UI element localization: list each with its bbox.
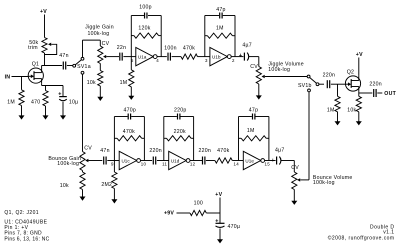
wire U1a 1M to ground: [130, 87, 132, 96]
label 47p U1b: [216, 7, 225, 13]
svg-text:Q1: Q1: [32, 61, 39, 67]
wire node to 470u: [219, 213, 221, 223]
wire U1a out: [157, 56, 167, 58]
label SV1a: [77, 64, 91, 70]
svg-text:+: +: [215, 218, 218, 224]
wire U1d res lead right: [191, 137, 194, 139]
label 100n: [164, 45, 177, 51]
resistor 1M (Q2 gate): [335, 96, 340, 112]
capacitor 220n (bounce mid): [153, 157, 155, 165]
wire R100 to node: [206, 212, 220, 214]
resistor 2M2: [112, 172, 117, 189]
capacitor 47p (U1b feedback): [220, 13, 222, 19]
wire U1e res lead right: [266, 137, 269, 139]
wire pot to 10k bounce: [82, 171, 84, 173]
wire 1M Q2 to ground: [337, 112, 339, 122]
capacitor 100n: [168, 53, 170, 61]
wire BV pot to ground: [293, 190, 295, 202]
wire U1c 2M2 down: [113, 161, 115, 173]
trimmer 50k: [42, 38, 47, 54]
wire +V to Q2 drain: [358, 58, 360, 76]
svg-text:CV: CV: [102, 41, 110, 47]
wire U1a feedback top right: [148, 15, 161, 17]
wire U1b feedback left: [204, 16, 206, 57]
svg-text:12: 12: [190, 162, 196, 167]
capacitor 100p (U1a feedback): [145, 13, 147, 19]
capacitor 22n: [120, 53, 122, 61]
svg-text:Q1, Q2: J201: Q1, Q2: J201: [4, 210, 39, 216]
ground (U1a 1M): [128, 96, 134, 100]
wire U1d feedback left: [163, 117, 165, 161]
svg-text:U1b: U1b: [212, 54, 221, 59]
wire C47n to SV1a: [67, 65, 73, 67]
label 120k: [138, 26, 150, 32]
wire pot to 10k: [99, 64, 101, 71]
svg-text:Q2: Q2: [347, 70, 354, 76]
bounce gain wiper: [85, 159, 102, 162]
ground (Q2 10k): [356, 121, 362, 125]
label 1M U1e: [247, 128, 255, 134]
wire 470k to U1e: [232, 160, 243, 162]
switch SV1b throw top: [307, 75, 310, 78]
label 220n Q2: [323, 73, 336, 79]
wire U1e res lead left: [239, 137, 242, 139]
svg-text:220k: 220k: [174, 129, 186, 135]
label 470: [31, 99, 40, 105]
wire to R470: [45, 86, 47, 91]
wire 47n to U1c: [107, 160, 119, 162]
svg-text:220n: 220n: [149, 148, 162, 154]
capacitor 470p (U1c feedback): [128, 114, 130, 120]
label 10u: [69, 99, 79, 105]
wire corner down to JV pot: [258, 57, 260, 67]
wire U1e feedback right: [268, 117, 270, 161]
svg-text:Jiggle Gain: Jiggle Gain: [85, 25, 114, 31]
wire U1e feedback top right: [256, 116, 269, 118]
wire SV1b bottom vertical: [308, 92, 310, 180]
svg-text:9: 9: [111, 162, 114, 167]
potentiometer Jiggle Volume 100k: [256, 67, 261, 85]
wire U1c res lead right: [142, 137, 145, 139]
pin 2 U1b: [232, 58, 235, 63]
label CV jiggle volume: [250, 64, 258, 70]
wire U1b feedback top left: [205, 15, 219, 17]
resistor 470k (jiggle): [181, 54, 198, 59]
pin 3 U1b: [205, 58, 208, 63]
capacitor 220n (U1d to 470k): [203, 157, 205, 165]
svg-text:+9V: +9V: [164, 211, 174, 217]
wire +9V to R100: [177, 212, 191, 214]
wire node up to +V: [219, 198, 221, 214]
svg-text:U1d: U1d: [171, 158, 180, 163]
svg-text:+: +: [271, 158, 274, 164]
label Q1: [32, 61, 39, 67]
label 4u7 jiggle: [242, 43, 252, 49]
ground (470): [43, 115, 49, 119]
wire U1c feedback top left: [114, 116, 127, 118]
node IN label: [5, 75, 11, 81]
svg-text:100k-log: 100k-log: [313, 180, 335, 186]
wire 1M to ground: [21, 106, 23, 117]
wire 470k to U1b: [198, 56, 210, 58]
label trim: [28, 45, 38, 51]
svg-text:U1a: U1a: [138, 54, 147, 59]
label 100k-log jiggle gain: [87, 31, 109, 37]
svg-text:+: +: [239, 53, 242, 59]
svg-text:2M2: 2M2: [101, 182, 112, 188]
capacitor 470u electrolytic: [215, 218, 224, 227]
ground (bounce volume): [291, 201, 297, 205]
pin 12 U1d: [190, 162, 196, 167]
power +V (trimmer): [40, 9, 47, 15]
wire U1c feedback left: [113, 117, 115, 161]
svg-text:CV: CV: [250, 64, 258, 70]
label 470k jiggle: [183, 46, 195, 52]
svg-text:1M: 1M: [7, 99, 15, 105]
resistor 1M (U1a input): [129, 70, 134, 87]
switch SV1b pole: [316, 83, 319, 86]
label CV bounce volume: [291, 165, 299, 171]
wire +V to trimmer: [44, 15, 46, 38]
label SV1b: [298, 83, 312, 89]
switch SV1a throw top: [81, 57, 84, 60]
svg-text:OUT: OUT: [384, 91, 396, 97]
credit Double D: [370, 225, 394, 231]
note U1 CD4049UBE: [4, 220, 47, 226]
svg-text:+V: +V: [215, 192, 222, 198]
svg-text:Pins 6, 13, 16: NC: Pins 6, 13, 16: NC: [4, 236, 49, 242]
svg-text:10k: 10k: [347, 107, 356, 113]
potentiometer Bounce Volume 100k: [292, 172, 297, 190]
svg-text:+V: +V: [40, 9, 47, 15]
svg-text:4µ7: 4µ7: [242, 43, 252, 49]
switch SV1b throw bottom: [308, 89, 311, 92]
svg-text:47n: 47n: [100, 148, 109, 154]
inverter U1a: [136, 47, 157, 65]
transistor Q1 J201: [28, 68, 43, 83]
label Jiggle Volume: [268, 62, 304, 68]
credit v1.1: [383, 230, 394, 236]
svg-text:470p: 470p: [124, 108, 137, 114]
note pins61316: [4, 236, 49, 242]
ground (input 1M): [19, 115, 25, 119]
wire U1b res lead left: [205, 35, 208, 37]
label 470p: [124, 108, 137, 114]
pin 14 U1e: [234, 162, 240, 167]
svg-text:220n: 220n: [369, 82, 382, 88]
svg-text:100k-log: 100k-log: [87, 31, 109, 37]
wire IN to Q1 gate: [12, 76, 29, 78]
label 47p U1e: [249, 108, 258, 114]
resistor 470: [43, 91, 48, 107]
label +9V: [164, 211, 174, 217]
svg-text:©2008, runoffgroove.com: ©2008, runoffgroove.com: [328, 235, 395, 242]
inverter U1b: [210, 47, 231, 65]
wire node to R1M out: [337, 84, 339, 96]
label Jiggle Gain: [85, 25, 114, 31]
label OUT: [384, 91, 396, 97]
label 47n jiggle: [59, 53, 68, 59]
wire 22n to U1a: [123, 56, 135, 58]
wire source node: [42, 85, 63, 87]
wire 10u to ground: [62, 102, 64, 116]
inverter U1c: [119, 151, 140, 169]
ground (10u): [60, 115, 66, 119]
inverter U1d: [169, 151, 190, 169]
svg-text:220n: 220n: [323, 73, 336, 79]
label 50k: [29, 40, 38, 46]
wire U1a feedback left: [130, 16, 132, 57]
label 220k: [174, 129, 186, 135]
wire node to R 1M input: [21, 77, 23, 90]
label 1M Q2: [327, 107, 335, 113]
wire source to out: [359, 92, 373, 94]
label 220n out: [369, 82, 382, 88]
inverter U1e: [243, 151, 264, 169]
label 470u: [228, 224, 241, 230]
wire SV1a bottom to bounce pot: [82, 74, 84, 151]
wire U1b feedback right: [234, 16, 236, 57]
resistor 470k (bounce): [215, 158, 232, 163]
svg-text:14: 14: [234, 162, 240, 167]
svg-text:470k: 470k: [123, 129, 135, 135]
label 100p: [139, 5, 152, 11]
svg-text:470k: 470k: [217, 148, 229, 154]
power +V (supply): [215, 192, 222, 198]
wire JV pot to ground: [258, 84, 260, 96]
note pin1: [4, 225, 28, 231]
wire U1a res lead left: [131, 35, 134, 37]
svg-text:47n: 47n: [59, 53, 68, 59]
wire U1d res lead left: [164, 137, 167, 139]
note pins78: [4, 231, 42, 237]
wire U1c res lead left: [114, 137, 117, 139]
svg-text:100: 100: [194, 201, 203, 207]
label 100k-log jiggle volume: [268, 67, 290, 73]
power +V (Q2): [356, 52, 363, 58]
wire 10k to ground: [99, 86, 101, 97]
label 1M U1b: [216, 25, 224, 31]
wire U1c out: [141, 160, 153, 162]
wire U1d feedback right: [193, 117, 195, 161]
wire U1a res lead right: [159, 35, 162, 37]
wire SV1a top to rail: [82, 40, 84, 57]
wire trimmer to drain node: [44, 53, 46, 66]
svg-text:1M: 1M: [247, 128, 255, 134]
wire U1b out: [231, 56, 243, 58]
label 47n bounce: [100, 148, 109, 154]
label 1M input: [7, 99, 15, 105]
svg-text:15: 15: [265, 162, 271, 167]
switch SV1a pole: [73, 64, 76, 67]
wire U1a feedback top left: [131, 15, 144, 17]
svg-text:120k: 120k: [138, 26, 150, 32]
resistor 10k (bounce gain): [80, 172, 85, 190]
wire 470 to ground: [45, 106, 47, 116]
potentiometer Jiggle Gain 100k: [98, 46, 103, 64]
svg-text:IN: IN: [5, 75, 11, 81]
label CV jiggle gain: [102, 41, 110, 47]
resistor 1M (input): [19, 90, 24, 106]
label 10k bounce: [60, 183, 69, 189]
label 10k Q2: [347, 107, 356, 113]
label 2M2: [101, 182, 112, 188]
svg-text:CV: CV: [291, 165, 299, 171]
svg-text:10µ: 10µ: [69, 99, 79, 105]
wire 220n to 470k bounce: [206, 160, 215, 162]
svg-text:11: 11: [162, 162, 167, 167]
resistor 10k (Q2 source): [356, 96, 361, 112]
switch SV1b lever: [310, 78, 317, 84]
capacitor 220p (U1d feedback): [178, 114, 180, 120]
wire 4u7 to corner: [249, 56, 259, 58]
svg-text:47p: 47p: [249, 108, 258, 114]
wire drain node to C47n: [42, 65, 63, 67]
svg-text:SV1b: SV1b: [298, 83, 312, 89]
switch SV1a lever: [75, 60, 81, 65]
resistor 120k (U1a feedback): [134, 33, 159, 38]
svg-text:100k-log: 100k-log: [57, 161, 79, 167]
label 470k bounce: [217, 148, 229, 154]
label Bounce Volume: [313, 175, 353, 181]
svg-text:470µ: 470µ: [228, 224, 241, 230]
bounce volume wiper: [297, 178, 309, 181]
wire Q2 source down: [358, 91, 360, 93]
wire U1e feedback top left: [239, 116, 252, 118]
wire to C 10u: [62, 86, 64, 97]
label Bounce Gain: [48, 156, 81, 162]
svg-text:3: 3: [205, 58, 208, 63]
label 10k jiggle: [87, 80, 96, 86]
capacitor 4u7 (bounce out): [271, 157, 281, 165]
resistor 1M (U1e feedback): [241, 136, 266, 141]
capacitor 4u7 (jiggle out): [239, 53, 249, 61]
label 220p: [174, 108, 187, 114]
svg-text:1M: 1M: [120, 80, 128, 86]
wire 220n to OUT: [377, 92, 382, 94]
svg-text:2: 2: [232, 58, 235, 63]
label 100k-log bounce volume: [313, 180, 335, 186]
resistor 220k (U1d feedback): [167, 136, 192, 141]
ground (bounce 10k): [80, 197, 86, 201]
svg-text:47p: 47p: [216, 7, 225, 13]
wire rail to jiggle gain pot: [83, 39, 101, 41]
wire Q1 drain to node: [41, 66, 43, 69]
wire U1c feedback top right: [131, 116, 144, 118]
credit copyright: [328, 235, 395, 242]
wire to pot top: [99, 40, 101, 46]
wire 4u7 to corner bounce: [281, 160, 295, 162]
resistor 100: [190, 210, 206, 215]
svg-text:4µ7: 4µ7: [275, 147, 285, 153]
label Q2: [347, 70, 354, 76]
wire U1e feedback left: [238, 117, 240, 161]
svg-text:100n: 100n: [164, 45, 177, 51]
wire Q1 source down: [41, 83, 43, 85]
svg-text:CV: CV: [84, 145, 92, 151]
trimmer wiper: [45, 43, 57, 55]
resistor 1M (U1b feedback): [207, 33, 232, 38]
wire U1d feedback top right: [181, 116, 194, 118]
svg-text:4: 4: [156, 58, 159, 63]
wire 220n to Q2 gate: [331, 83, 346, 85]
svg-text:1M: 1M: [327, 107, 335, 113]
wire U1d out: [190, 160, 203, 162]
svg-text:100p: 100p: [139, 5, 152, 11]
svg-text:470: 470: [31, 99, 40, 105]
wire 220n to U1d: [157, 160, 169, 162]
pin 9 U1c: [111, 162, 114, 167]
label 1M U1a: [120, 80, 128, 86]
label 4u7 bounce: [275, 147, 285, 153]
svg-text:U1e: U1e: [245, 158, 254, 163]
label 100k-log bounce gain: [57, 161, 79, 167]
pin 15 U1e: [265, 162, 271, 167]
ground (Q2 1M): [335, 121, 341, 125]
svg-text:SV1a: SV1a: [77, 64, 91, 70]
capacitor 220n (to Q2): [327, 80, 329, 88]
wire U1a feedback right: [160, 16, 162, 57]
wire SV1b to 220n: [319, 83, 324, 85]
jiggle volume wiper: [262, 75, 308, 78]
label 100: [194, 201, 203, 207]
ground (jiggle 10k): [97, 97, 103, 101]
svg-text:+: +: [58, 91, 61, 97]
svg-text:trim: trim: [28, 45, 38, 51]
wire U1b feedback top right: [223, 15, 235, 17]
wire U1c feedback right: [143, 117, 145, 161]
capacitor 10u electrolytic: [58, 91, 67, 100]
svg-text:1M: 1M: [216, 25, 224, 31]
note Q1 Q2 J201: [4, 210, 39, 216]
label CV bounce gain: [84, 145, 92, 151]
wire to R10k out: [358, 93, 360, 96]
svg-text:+V: +V: [356, 52, 363, 58]
label 220n bounce: [149, 148, 162, 154]
capacitor 47p (U1e feedback): [253, 114, 255, 120]
svg-text:100k-log: 100k-log: [268, 67, 290, 73]
jiggle gain wiper: [103, 55, 119, 58]
capacitor 220n (output): [374, 89, 376, 97]
svg-text:10k: 10k: [60, 183, 69, 189]
wire U1a 1M down: [130, 57, 132, 70]
ground (jiggle volume): [256, 95, 262, 99]
label 220n bounce 2: [199, 148, 212, 154]
wire U1e out: [265, 160, 276, 162]
label 470k U1c: [123, 129, 135, 135]
svg-text:22n: 22n: [117, 45, 126, 51]
resistor 10k (jiggle gain): [98, 71, 103, 87]
label 22n: [117, 45, 126, 51]
wire 10k Q2 to ground: [358, 112, 360, 122]
wire 470u to ground: [219, 229, 221, 240]
wire 2M2 to ground: [113, 189, 115, 200]
wire U1d feedback top left: [164, 116, 177, 118]
potentiometer Bounce Gain 100k: [80, 152, 85, 171]
pin 5 U1a: [131, 58, 134, 63]
ground (2M2): [111, 199, 117, 203]
svg-text:10: 10: [141, 162, 147, 167]
svg-text:220p: 220p: [174, 108, 187, 114]
pin 11 U1d: [162, 162, 167, 167]
resistor 470k (U1c feedback): [117, 136, 142, 141]
capacitor 47n (jiggle input): [63, 62, 65, 70]
pin 4 U1a: [156, 58, 159, 63]
svg-text:U1c: U1c: [121, 158, 130, 163]
transistor Q2 J201: [345, 76, 360, 91]
pin 10 U1c: [141, 162, 147, 167]
wire 100n to 470k: [172, 56, 181, 58]
